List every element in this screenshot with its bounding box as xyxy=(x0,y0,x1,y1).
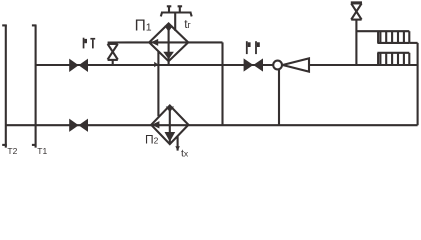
svg-text:П1: П1 xyxy=(135,18,152,35)
svg-text:П2: П2 xyxy=(145,133,159,147)
svg-text:Т2: Т2 xyxy=(7,146,17,156)
svg-text:tх: tх xyxy=(181,148,189,160)
svg-text:tг: tг xyxy=(184,17,191,31)
svg-text:Т1: Т1 xyxy=(37,146,47,156)
